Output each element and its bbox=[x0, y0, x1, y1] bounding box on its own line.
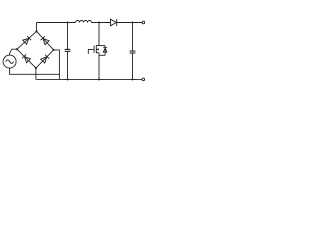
capacitor C1 (after bridge) bbox=[65, 23, 71, 80]
terminal output + bbox=[142, 21, 145, 24]
wire AC bottom return bbox=[10, 68, 60, 74]
wire bridge top node to top rail bbox=[36, 23, 38, 32]
wire bridge edge top-left bbox=[17, 31, 37, 49]
wire bridge bottom node to bottom rail bbox=[35, 68, 37, 79]
diode D1 (bridge top-left, points to top node) bbox=[23, 36, 31, 44]
body diode link bottom bbox=[99, 54, 105, 56]
wire top rail right segment bbox=[117, 22, 142, 24]
drain wire bbox=[98, 23, 100, 46]
wire bridge edge top-right bbox=[37, 31, 54, 50]
body diode triangle bbox=[103, 48, 107, 52]
node bridge right bbox=[53, 49, 55, 51]
inductor L1 bbox=[76, 21, 92, 23]
node Q1 source bbox=[98, 78, 100, 80]
diode D2 (bridge top-right, points to top node) bbox=[41, 36, 49, 44]
wire AC top to bridge left node bbox=[10, 49, 17, 55]
node bridge left bbox=[16, 48, 18, 50]
node C2 top bbox=[131, 21, 133, 23]
diode D5 (boost diode) bbox=[111, 19, 117, 26]
gate bar bbox=[93, 46, 95, 53]
mosfet Q1 bbox=[88, 23, 107, 80]
body stub with arrow bbox=[96, 48, 99, 50]
node C2 bottom bbox=[131, 78, 133, 80]
wire bridge edge bottom-right bbox=[36, 50, 54, 68]
body diode vertical bbox=[104, 46, 106, 56]
capacitor C2 (output) bbox=[130, 23, 136, 80]
body diode cathode bar bbox=[103, 46, 107, 48]
wire top rail middle segment bbox=[92, 22, 111, 24]
node bridge top bbox=[35, 30, 37, 32]
node bridge bottom bbox=[35, 67, 37, 69]
ac source V1 bbox=[3, 55, 16, 68]
source wire bbox=[98, 53, 100, 80]
gate lead bbox=[88, 49, 94, 54]
wire bottom rail bbox=[36, 78, 142, 80]
diode D4 (bridge bottom-right, points to right node) bbox=[41, 55, 49, 63]
terminal output - bbox=[142, 78, 145, 81]
wire bridge right node drop bbox=[54, 50, 60, 80]
diode D3 (bridge bottom-left, points to left node) bbox=[22, 54, 30, 62]
node Q1 drain bbox=[98, 21, 100, 23]
node C1 bottom bbox=[66, 78, 68, 80]
wire bridge edge bottom-left bbox=[17, 49, 36, 68]
channel bar bbox=[95, 45, 97, 53]
node C1 top bbox=[66, 21, 68, 23]
wire top rail left segment bbox=[37, 22, 76, 24]
drain stub and body diode top link bbox=[96, 45, 105, 47]
source stub bbox=[96, 52, 99, 54]
